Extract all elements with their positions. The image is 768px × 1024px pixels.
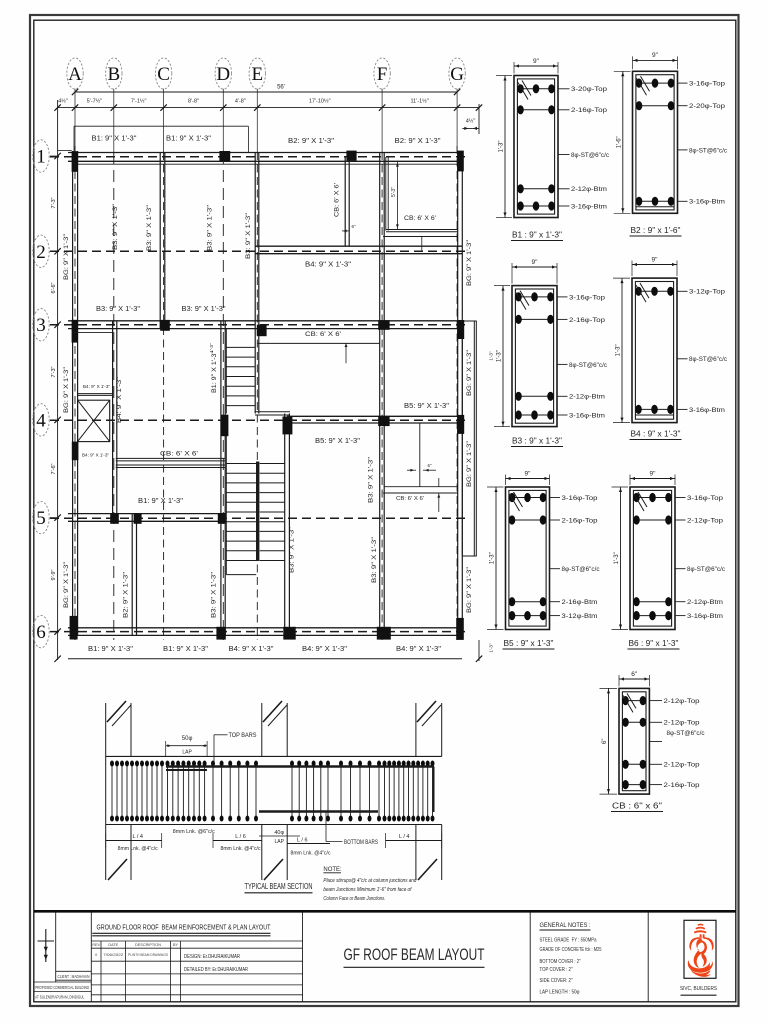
svg-text:11'-1½": 11'-1½" [410, 97, 428, 104]
svg-text:B2 : 9" x 1'-6": B2 : 9" x 1'-6" [631, 226, 681, 235]
stair left edge lower [225, 415, 227, 575]
svg-text:1'-6": 1'-6" [616, 136, 622, 148]
svg-text:GROUND FLOOR ROOF BEAM REINFO: GROUND FLOOR ROOF BEAM REINFORCEMENT & P… [97, 925, 272, 932]
svg-text:B1: 9" X 1'-3": B1: 9" X 1'-3" [166, 136, 212, 143]
svg-text:CB: 6' X 6': CB: 6' X 6' [404, 216, 436, 222]
svg-text:BY: BY [173, 943, 179, 947]
dim tick lower right a [438, 478, 440, 487]
svg-text:BG: 9" X 1'-3": BG: 9" X 1'-3" [63, 233, 70, 280]
svg-text:NOTE:: NOTE: [323, 867, 342, 873]
svg-text:2-12φ-Top: 2-12φ-Top [687, 517, 723, 524]
stair lower double flight treads [226, 463, 256, 465]
row centerline 5 dashed [50, 517, 470, 519]
svg-text:3-16φ-Top: 3-16φ-Top [562, 495, 598, 502]
section B3 top dim [512, 266, 557, 268]
grid line 3 stub [50, 324, 58, 326]
section CB rebar [622, 700, 646, 702]
section CB labels [649, 700, 662, 702]
svg-text:2-12φ-Btm: 2-12φ-Btm [687, 599, 724, 606]
typical beam middle column [261, 703, 263, 756]
beam x287 vertical lower [284, 414, 286, 637]
CB beam below row3 [257, 342, 380, 344]
svg-text:4½": 4½" [466, 118, 476, 125]
section B4 left dim [621, 278, 623, 423]
svg-text:3-16φ-Btm: 3-16φ-Btm [687, 613, 724, 620]
svg-text:TOP BARS: TOP BARS [229, 733, 257, 739]
left vertical dimension line [57, 100, 59, 660]
column x134 row5 [134, 513, 142, 523]
section B2 top dim [633, 59, 678, 61]
column G3 [457, 320, 464, 339]
dim tick below row3 [345, 343, 347, 363]
svg-text:1'-3": 1'-3" [489, 351, 494, 361]
section B6 labels [675, 497, 686, 499]
svg-text:B2: 9" X 1'-3": B2: 9" X 1'-3" [123, 571, 130, 618]
grid centerline A dashed [74, 146, 76, 640]
svg-text:3-16φ-Btm: 3-16φ-Btm [569, 412, 606, 419]
row centerline 2 dashed [50, 250, 470, 252]
svg-text:3-12φ-Top: 3-12φ-Top [689, 289, 725, 296]
column D6 [216, 627, 225, 640]
section CB stirrup hook [623, 695, 633, 712]
svg-text:BOTTOM BARS: BOTTOM BARS [344, 840, 378, 846]
section B5 left dim [495, 487, 497, 630]
svg-text:B2: 9" X 1'-3": B2: 9" X 1'-3" [288, 138, 335, 145]
svg-text:3-20φ-Top: 3-20φ-Top [571, 86, 607, 93]
section B2 rebar [636, 82, 674, 84]
right room line y486 [384, 486, 457, 488]
section CB left dim [608, 688, 610, 794]
svg-text:6": 6" [631, 671, 638, 678]
rev table divider right [302, 913, 304, 1002]
svg-text:A: A [68, 64, 82, 85]
client cell line [56, 970, 92, 972]
section B1 rebar [517, 88, 554, 90]
svg-text:8φ-ST@6"c/c: 8φ-ST@6"c/c [689, 147, 728, 154]
svg-text:6: 6 [36, 622, 46, 643]
svg-text:2-16φ-Top: 2-16φ-Top [664, 782, 700, 789]
small room top line below row3 [74, 332, 113, 334]
svg-text:1'-3": 1'-3" [614, 552, 620, 564]
svg-text:DESCRIPTION: DESCRIPTION [135, 943, 161, 947]
svg-text:B3: 9" X 1'-3": B3: 9" X 1'-3" [207, 204, 214, 251]
dim tick y470 room [407, 469, 416, 471]
break symbol right bottom [418, 859, 437, 880]
section B5 labels [550, 497, 561, 499]
beam x134 vertical lower [131, 514, 133, 636]
svg-text:2-12φ-Btm: 2-12φ-Btm [571, 186, 608, 193]
beam row 4 right B5 [287, 415, 462, 417]
svg-text:1'-3": 1'-3" [499, 141, 505, 153]
grid centerline F dashed [381, 152, 383, 640]
column E3 [257, 325, 267, 337]
svg-text:B1: 9" X 1'-3": B1: 9" X 1'-3" [88, 646, 134, 653]
title block divider client col [90, 913, 92, 1002]
row centerline 4 dashed [50, 419, 470, 421]
dim line CB room [396, 162, 398, 229]
svg-text:B1: 9" X 1'-3": B1: 9" X 1'-3" [138, 498, 184, 505]
section B4 rebar [635, 290, 673, 292]
section B4 labels [677, 290, 688, 292]
rev table grid [91, 940, 302, 942]
section CB stirrup [622, 692, 646, 791]
section B1 left dim [504, 76, 506, 218]
svg-text:beam Junctions Minimum 1'-6" f: beam Junctions Minimum 1'-6" from face o… [323, 887, 411, 893]
svg-text:B2: 9" X 1'-3": B2: 9" X 1'-3" [395, 138, 442, 145]
svg-text:C: C [157, 64, 170, 85]
grid line F upper stub [381, 89, 383, 152]
dim L6 left [213, 840, 262, 842]
svg-text:8mm Lnk. @4"c/c: 8mm Lnk. @4"c/c [118, 846, 158, 852]
svg-text:50φ: 50φ [182, 736, 193, 742]
grid bubble 3 [33, 309, 49, 341]
grid line 2 stub [50, 250, 58, 252]
wall x386 CB room edge [385, 157, 387, 231]
svg-text:DESIGN: Er.DHURAIKUMAR: DESIGN: Er.DHURAIKUMAR [184, 954, 240, 960]
svg-text:B1: 9" X 1'-3": B1: 9" X 1'-3" [163, 646, 209, 653]
grid line A upper stub [74, 89, 76, 152]
break symbol middle bottom [264, 859, 283, 880]
column B5 [110, 513, 119, 523]
dim 6in strip [342, 230, 349, 232]
grid bubble C [155, 58, 171, 89]
svg-text:8φ-ST@6"c/c: 8φ-ST@6"c/c [689, 356, 728, 363]
section B6 rebar [633, 497, 671, 499]
grid bubble D [215, 58, 231, 89]
section B5 rebar [509, 497, 546, 499]
svg-text:B: B [107, 64, 120, 85]
svg-text:D: D [216, 64, 230, 85]
grid line 5 stub [50, 517, 58, 519]
svg-text:CB: 6' X 6': CB: 6' X 6' [305, 332, 341, 338]
svg-text:B3: 9" X 1'-3": B3: 9" X 1'-3" [146, 204, 153, 251]
north arrow symbol [45, 929, 47, 962]
svg-text:Column Face or Beam Junctions.: Column Face or Beam Junctions. [323, 896, 385, 902]
section B3 labels [557, 296, 568, 298]
section B1 stirrup [517, 79, 554, 214]
section B5 stirrup hook [510, 494, 520, 511]
typical beam outline [106, 755, 442, 757]
column A1 [72, 151, 78, 172]
section B2 labels [678, 82, 688, 84]
svg-text:L / 4: L / 4 [132, 834, 143, 840]
break symbol middle top [263, 701, 282, 722]
svg-text:B4: 9" X 1'-3": B4: 9" X 1'-3" [229, 646, 275, 653]
svg-text:1'-3": 1'-3" [497, 350, 503, 362]
section CB top dim [619, 678, 649, 680]
break symbol left top [107, 701, 126, 722]
svg-text:0: 0 [95, 953, 97, 957]
svg-text:G: G [450, 64, 464, 85]
svg-text:GENERAL NOTES :: GENERAL NOTES : [540, 922, 591, 929]
svg-text:5: 5 [36, 508, 46, 529]
column D5 [218, 513, 226, 523]
svg-text:B1: 9" X 1'-3": B1: 9" X 1'-3" [212, 351, 218, 393]
grid bubble 2 [33, 235, 49, 267]
svg-text:3-16φ-Btm: 3-16φ-Btm [571, 203, 608, 210]
title block divider north cell [55, 913, 57, 983]
grid bubble 5 [33, 501, 49, 533]
svg-text:9": 9" [525, 470, 532, 477]
duct box right of G [462, 321, 476, 556]
section B3 stirrup [515, 289, 553, 423]
svg-text:SIDE COVER: 2": SIDE COVER: 2" [540, 978, 573, 984]
svg-text:8'-8": 8'-8" [188, 98, 199, 104]
break symbol right top [417, 701, 436, 722]
svg-text:B3: 9" X 1'-3": B3: 9" X 1'-3" [211, 571, 218, 618]
typical beam stirrups [111, 764, 113, 819]
svg-text:REV: REV [92, 943, 100, 947]
column D4 [221, 415, 228, 437]
stair central spine [256, 462, 259, 562]
svg-text:9": 9" [532, 259, 539, 266]
svg-text:B3: 9" X 1'-3": B3: 9" X 1'-3" [368, 456, 375, 503]
beam grid C vertical upper [159, 152, 161, 329]
beam grid E vertical upper [254, 152, 256, 414]
stair upper flight treads [226, 346, 255, 348]
svg-text:2-16φ-Top: 2-16φ-Top [569, 317, 605, 324]
logo box [684, 920, 716, 978]
svg-text:GF ROOF BEAM LAYOUT: GF ROOF BEAM LAYOUT [344, 945, 485, 964]
svg-text:F: F [377, 64, 388, 85]
grid bubble A [67, 58, 83, 89]
svg-text:B5: 9" X 1'-3": B5: 9" X 1'-3" [315, 438, 361, 445]
svg-text:BG: 9" X 1'-3": BG: 9" X 1'-3" [63, 561, 70, 608]
svg-text:Place stirrups@ 4"c/c at colum: Place stirrups@ 4"c/c at column junction… [323, 878, 417, 884]
ganesha logo [688, 924, 714, 977]
line below CB room [383, 236, 458, 238]
column F4 [378, 416, 389, 426]
grid bubble G [449, 58, 465, 89]
plan bottom outline [68, 658, 462, 660]
svg-text:9'-9": 9'-9" [51, 569, 57, 580]
svg-text:7'-3": 7'-3" [51, 366, 57, 377]
svg-text:40φ: 40φ [274, 830, 284, 836]
column A6 [70, 616, 78, 640]
column F6 [377, 627, 391, 640]
grid line B upper stub [113, 89, 115, 152]
svg-text:1: 1 [36, 147, 46, 168]
small dim tick x421 [421, 237, 423, 253]
svg-text:B3: 9" X 1'-3": B3: 9" X 1'-3" [112, 203, 119, 250]
column A3 [72, 320, 78, 343]
row centerline 3 dashed [50, 324, 470, 326]
logo cell divider [647, 913, 649, 1002]
svg-text:BG: 9" X 1'-3": BG: 9" X 1'-3" [466, 239, 473, 286]
svg-text:7/06/2022: 7/06/2022 [103, 953, 123, 957]
section B2 left dim [622, 71, 624, 213]
svg-text:BG: 9" X 1'-3": BG: 9" X 1'-3" [466, 566, 473, 613]
svg-text:3-16φ-Btm: 3-16φ-Btm [689, 407, 726, 414]
svg-text:GRADE OF CONCRETE fck : M25: GRADE OF CONCRETE fck : M25 [540, 947, 602, 953]
section B1 labels [558, 88, 570, 90]
column x287 row6 [283, 627, 295, 640]
svg-text:L / 6: L / 6 [235, 834, 246, 840]
svg-text:CB: 6' X 6': CB: 6' X 6' [335, 183, 341, 217]
section B4 stirrup [635, 282, 673, 420]
svg-text:PROPOSED COMMERCIAL BUILDING: PROPOSED COMMERCIAL BUILDING [35, 985, 89, 990]
beam row 5 left [68, 513, 226, 515]
column E-F interior row1 [346, 151, 356, 161]
dim 40phi lap [259, 835, 300, 837]
top slab outline [74, 125, 248, 127]
svg-text:6": 6" [351, 224, 356, 229]
section CB outline [619, 688, 649, 794]
left slab edge line [58, 150, 72, 152]
grid line D upper stub [222, 89, 224, 152]
column A shaft corner [72, 442, 79, 461]
column C3 [160, 320, 170, 331]
grid centerline B dashed [113, 152, 115, 640]
svg-text:8φ-ST@6"c/c: 8φ-ST@6"c/c [687, 566, 726, 573]
svg-text:DATE: DATE [108, 943, 118, 947]
beam row 6 B1-B4 [68, 627, 462, 629]
svg-text:17'-10½": 17'-10½" [309, 97, 331, 104]
svg-text:1'-3": 1'-3" [490, 552, 496, 564]
stair mid landing line [226, 574, 256, 576]
row centerline 1 dashed [50, 156, 470, 158]
grid line G upper stub [456, 89, 458, 152]
grid line 6 stub [50, 631, 58, 633]
section B6 stirrup [633, 490, 671, 626]
svg-text:4: 4 [36, 410, 46, 431]
section B6 top dim [630, 478, 675, 480]
section B6 left dim [620, 487, 622, 630]
CB beam stair hall double [116, 457, 225, 459]
svg-text:8φ-ST@6"c/c: 8φ-ST@6"c/c [571, 152, 610, 159]
dim tick lower right b [438, 493, 440, 512]
svg-text:TOP COVER : 2": TOP COVER : 2" [540, 967, 573, 973]
svg-text:2-16φ-Btm: 2-16φ-Btm [562, 599, 599, 606]
svg-text:B3: 9" X 1'-3": B3: 9" X 1'-3" [96, 306, 141, 313]
grid centerline C dashed [163, 152, 165, 640]
beam row 2 B4 segment [255, 245, 462, 247]
bottom right mini dim [478, 640, 480, 661]
svg-text:B4: 9" X 1'-3": B4: 9" X 1'-3" [305, 262, 352, 269]
svg-text:3-16φ-Top: 3-16φ-Top [689, 81, 725, 88]
beam x347 vertical upper [344, 156, 346, 247]
svg-text:LAP LENGTH : 50φ: LAP LENGTH : 50φ [540, 990, 581, 996]
column G6 [456, 618, 464, 640]
svg-text:B4: 9" X 1'-3": B4: 9" X 1'-3" [302, 646, 348, 653]
general notes divider [529, 913, 531, 1002]
svg-text:7'-3": 7'-3" [51, 197, 57, 208]
beam row 1 lower slab line [74, 163, 460, 165]
svg-text:8φ-ST@6"c/c: 8φ-ST@6"c/c [562, 566, 601, 573]
svg-text:DETAILED BY: Er.DHURAIKUMAR: DETAILED BY: Er.DHURAIKUMAR [184, 967, 248, 973]
svg-text:2-16φ-Top: 2-16φ-Top [571, 107, 607, 114]
svg-text:B4: 9" X 1'-3": B4: 9" X 1'-3" [82, 453, 109, 459]
svg-text:LAP: LAP [182, 750, 192, 756]
wall x418 lower right room [419, 423, 421, 487]
svg-text:4½": 4½" [58, 97, 68, 104]
svg-text:B1 : 9" x 1'-3": B1 : 9" x 1'-3" [512, 231, 562, 240]
title block top heavy line [34, 910, 736, 913]
section B4 outline [632, 278, 677, 423]
svg-text:B4: 9" X 1'-3": B4: 9" X 1'-3" [116, 376, 123, 423]
grid line E upper stub [256, 89, 258, 152]
stair upper flight left edge [225, 329, 227, 414]
svg-text:2: 2 [36, 242, 46, 263]
right room line y493 [383, 492, 458, 494]
svg-text:2-12φ-Top: 2-12φ-Top [664, 720, 700, 727]
grid line C upper stub [163, 89, 165, 152]
svg-text:B3: 9" X 1'-3": B3: 9" X 1'-3" [245, 212, 252, 259]
svg-text:9": 9" [533, 58, 540, 65]
section B2 stirrup [636, 75, 674, 210]
svg-text:B3 : 9" x 1'-3": B3 : 9" x 1'-3" [512, 437, 562, 446]
svg-text:STEEL GRADE FY : 550MPa: STEEL GRADE FY : 550MPa [540, 938, 597, 944]
svg-text:8φ-ST@6"c/c: 8φ-ST@6"c/c [667, 730, 706, 737]
grid bubble E [249, 58, 265, 89]
section B6 outline [630, 487, 675, 630]
grid centerline G dashed [456, 146, 458, 640]
beam row 4 landing edge [255, 411, 290, 413]
svg-text:TYPICAL BEAM SECTION: TYPICAL BEAM SECTION [245, 882, 313, 891]
column F3 [378, 320, 389, 330]
beam grid A vertical BG [72, 151, 74, 636]
column x287 row4 [283, 417, 293, 435]
svg-text:6'-6": 6'-6" [51, 282, 57, 293]
shaft upper room divider [78, 393, 113, 395]
svg-text:CB : 6" x 6": CB : 6" x 6" [612, 802, 662, 811]
section B3 rebar [515, 296, 553, 298]
svg-text:B4 : 9" x 1'-3": B4 : 9" x 1'-3" [631, 430, 681, 439]
svg-text:3: 3 [36, 315, 46, 336]
svg-text:3-16φ-Top: 3-16φ-Top [687, 495, 723, 502]
svg-text:B5: 9" X 1'-3": B5: 9" X 1'-3" [404, 403, 450, 410]
svg-text:B1: 9" X 1'-3": B1: 9" X 1'-3" [92, 136, 138, 143]
svg-text:1'-3": 1'-3" [209, 343, 214, 353]
svg-text:CB: 6' X 6': CB: 6' X 6' [160, 451, 198, 457]
section B4 top dim [632, 264, 677, 266]
svg-text:7'-6": 7'-6" [51, 463, 57, 474]
section B5 top dim [506, 478, 550, 480]
svg-text:BOTTOM COVER : 2": BOTTOM COVER : 2" [540, 959, 581, 965]
section B6 stirrup hook [634, 494, 644, 511]
lift shaft X box [78, 400, 110, 441]
svg-text:2-20φ-Top: 2-20φ-Top [689, 103, 725, 110]
svg-text:6": 6" [602, 739, 608, 744]
svg-text:1'-3": 1'-3" [616, 344, 622, 356]
svg-text:CLIENT : MADHAVAN: CLIENT : MADHAVAN [58, 974, 90, 979]
svg-text:3-16φ-Btm: 3-16φ-Btm [689, 199, 726, 206]
CB room bottom double line [386, 229, 458, 231]
svg-text:8mm Lnk. @6"c/c: 8mm Lnk. @6"c/c [173, 829, 216, 835]
svg-text:3-12φ-Btm: 3-12φ-Btm [562, 613, 599, 620]
typical beam right column [415, 703, 417, 756]
column G1 [457, 151, 464, 172]
svg-text:2-16φ-Top: 2-16φ-Top [562, 517, 598, 524]
grid line 1 stub [50, 155, 58, 157]
beam grid F vertical [379, 152, 381, 636]
svg-text:9": 9" [652, 256, 659, 263]
svg-text:B6 : 9" x 1'-3": B6 : 9" x 1'-3" [629, 639, 679, 648]
grid bubble B [106, 58, 122, 89]
svg-text:PLINTH BEAM DRAWINGS: PLINTH BEAM DRAWINGS [128, 953, 168, 957]
column D1 [219, 151, 230, 161]
section B4 stirrup hook [636, 285, 646, 302]
svg-text:B5 : 9" x 1'-3": B5 : 9" x 1'-3" [504, 639, 554, 648]
svg-text:2-12φ-Top: 2-12φ-Top [664, 698, 700, 705]
svg-text:B4: 9" X 1'-3": B4: 9" X 1'-3" [83, 384, 110, 390]
section B2 outline [633, 71, 678, 213]
section B2 stirrup hook [637, 78, 647, 95]
svg-text:7'-1½": 7'-1½" [131, 97, 147, 104]
section B3 left dim [502, 286, 504, 427]
section B5 outline [506, 487, 550, 630]
dim L6 right [287, 843, 330, 845]
